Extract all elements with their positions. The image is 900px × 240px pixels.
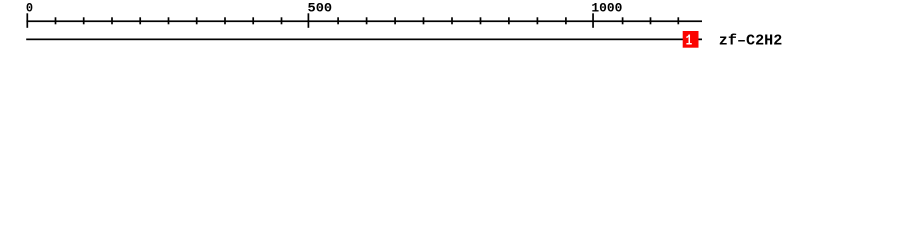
ruler minor tick 600 [366, 17, 368, 24]
ruler major tick 1000 [592, 13, 594, 27]
ruler minor tick 400 [252, 17, 254, 24]
svg-text:1000: 1000 [591, 1, 622, 16]
ruler major tick 0 [26, 13, 28, 27]
ruler major tick 500 [308, 13, 310, 27]
svg-text:0: 0 [26, 1, 33, 16]
ruler minor tick 850 [508, 17, 510, 24]
ruler minor tick 350 [224, 17, 226, 24]
svg-text:500: 500 [308, 1, 333, 16]
domain box 1 (zf-C2H2) [683, 31, 699, 48]
ruler minor tick 100 [83, 17, 85, 24]
background [0, 0, 900, 58]
ruler minor tick 300 [196, 17, 198, 24]
ruler minor tick 450 [281, 17, 283, 24]
ruler baseline [26, 20, 702, 22]
ruler minor tick 650 [394, 17, 396, 24]
ruler minor tick 150 [111, 17, 113, 24]
ruler minor tick 250 [168, 17, 170, 24]
svg-text:1: 1 [686, 32, 693, 49]
ruler minor tick 950 [565, 17, 567, 24]
ruler minor tick 1150 [677, 17, 679, 24]
ruler minor tick 200 [139, 17, 141, 24]
ruler minor tick 700 [423, 17, 425, 24]
ruler minor tick 550 [337, 17, 339, 24]
ruler minor tick 750 [451, 17, 453, 24]
svg-text:zf–C2H2: zf–C2H2 [719, 34, 783, 50]
ruler minor tick 900 [537, 17, 539, 24]
ruler minor tick 1100 [650, 17, 652, 24]
ruler minor tick 1050 [622, 17, 624, 24]
ruler minor tick 800 [480, 17, 482, 24]
ruler minor tick 50 [55, 17, 57, 24]
sequence backbone line [26, 39, 702, 41]
